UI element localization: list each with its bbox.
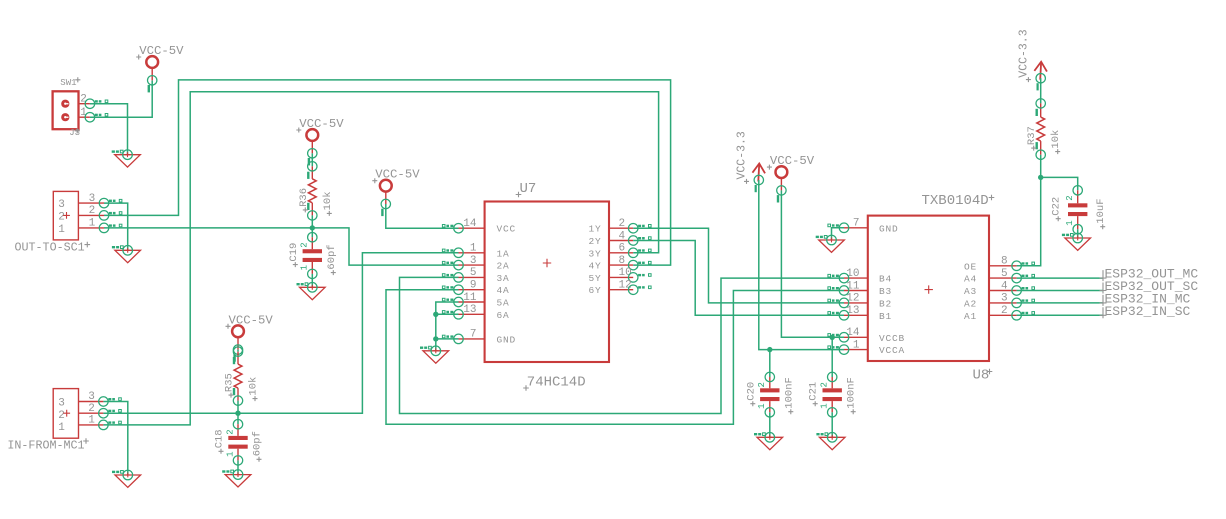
svg-text:7: 7	[470, 329, 477, 341]
svg-text:3: 3	[1001, 293, 1008, 305]
svg-text:B3: B3	[879, 286, 892, 297]
ground GND3 (IN-FROM-MC1)	[112, 470, 141, 487]
pad IN-FROM-MC1.1	[99, 420, 122, 430]
pad U7.13	[442, 310, 463, 320]
U8 pin 14 VCCB	[844, 327, 905, 344]
wire junction down to U8 OE	[1017, 177, 1041, 265]
svg-text:OUT-TO-SC1: OUT-TO-SC1	[15, 241, 85, 255]
ground GND1 (SW1)	[112, 150, 141, 167]
wire VCC-3.3 to R37	[1040, 78, 1042, 103]
U7 pin 4 2Y	[588, 230, 633, 247]
svg-text:3: 3	[470, 255, 477, 267]
pad IN-FROM-MC1.2	[99, 408, 122, 418]
pad OUT-TO-SC1.3	[99, 198, 122, 208]
wire OUT-TO-SC1.1 to U7 2A via R36 tap	[104, 228, 459, 265]
U8 pin 7 GND	[844, 218, 899, 235]
svg-text:4: 4	[619, 230, 626, 242]
svg-text:2Y: 2Y	[588, 236, 601, 247]
ground GND10 (C19)	[297, 283, 326, 300]
pad U7.7	[442, 334, 463, 344]
capacitor C21 100nF	[808, 372, 858, 417]
wire VCC-5V to U7 pin 14	[386, 204, 459, 228]
U7 pin 8 4Y	[588, 255, 633, 272]
svg-text:5Y: 5Y	[588, 273, 601, 284]
svg-text:100nF: 100nF	[783, 377, 795, 409]
svg-text:VCCB: VCCB	[879, 333, 905, 344]
ground GND8 (C21)	[816, 433, 845, 450]
U8 pin 8 OE	[964, 256, 1017, 273]
svg-text:ESP32_IN_SC: ESP32_IN_SC	[1105, 304, 1191, 319]
svg-text:4Y: 4Y	[588, 261, 601, 272]
connector OUT-TO-SC1 body	[53, 191, 78, 240]
U8 pin 2 A1	[964, 305, 1017, 322]
wire junction to C22	[1041, 177, 1078, 190]
svg-text:1A: 1A	[497, 248, 510, 259]
U7 pin 14 VCC	[459, 218, 517, 235]
svg-text:1: 1	[853, 339, 860, 351]
U7 pin 13 6A	[459, 304, 510, 321]
node ESP32_OUT_MC	[1100, 267, 1199, 282]
node ESP32_IN_SC	[1100, 304, 1191, 319]
U8 pin 5 A4	[964, 268, 1017, 285]
U8 pin 12 B2	[844, 293, 892, 310]
ground GND7 (C20)	[754, 433, 783, 450]
svg-text:9: 9	[470, 280, 477, 292]
svg-text:1: 1	[300, 265, 310, 270]
wire SW1.2 to ground	[90, 104, 128, 155]
wire R35 to net IN2	[237, 401, 239, 414]
wire tap to C18	[237, 413, 239, 424]
svg-text:2: 2	[80, 94, 87, 106]
ground GND5 (U7)	[420, 346, 449, 363]
label J3	[69, 128, 80, 138]
svg-text:7: 7	[853, 218, 860, 230]
wire C20 to ground	[769, 412, 771, 437]
capacitor C22 10uF	[1051, 186, 1108, 234]
svg-text:VCC-5V: VCC-5V	[139, 44, 184, 58]
svg-text:1: 1	[88, 415, 95, 427]
wire C20 tap down	[769, 350, 771, 377]
U7 pin 1 1A	[459, 243, 510, 260]
ground GND2 (OUT-TO-SC1)	[112, 246, 141, 263]
U8 pin 13 B1	[844, 305, 892, 322]
svg-text:VCC-3.3: VCC-3.3	[1017, 29, 1030, 77]
svg-text:4A: 4A	[497, 285, 510, 296]
wire U7 5A to ground rail	[436, 302, 459, 351]
svg-text:60pf: 60pf	[252, 431, 264, 456]
pad U8.14	[828, 333, 849, 343]
svg-text:R36: R36	[298, 188, 310, 207]
label OUT-TO-SC1	[15, 241, 85, 255]
pad U7.5	[442, 273, 463, 283]
svg-text:2: 2	[58, 410, 65, 422]
supply VCC-3.3 P+2 (R37)	[1017, 29, 1047, 90]
U8 pin 1 VCCA	[844, 339, 905, 356]
svg-text:2: 2	[1001, 305, 1008, 317]
svg-text:C22: C22	[1051, 197, 1063, 216]
svg-text:U8: U8	[973, 368, 990, 384]
ground GND9 (C22)	[1062, 233, 1091, 250]
IN-FROM-MC1 pin 1	[79, 415, 104, 427]
svg-text:C21: C21	[808, 382, 820, 401]
svg-text:14: 14	[463, 218, 477, 230]
supply VCC-5V P+5 (VCCB)	[767, 154, 815, 202]
pad U7.14	[442, 223, 463, 233]
resistor R36 10k	[298, 162, 334, 220]
svg-text:3A: 3A	[497, 273, 510, 284]
pad SW1.1	[85, 112, 108, 122]
pad U7.11	[442, 297, 463, 307]
svg-text:B2: B2	[879, 298, 892, 309]
wire C19 to ground	[311, 274, 313, 287]
svg-text:2: 2	[88, 403, 95, 415]
svg-text:3: 3	[88, 391, 95, 403]
svg-text:1Y: 1Y	[588, 224, 601, 235]
connector IN-FROM-MC1 body	[53, 389, 78, 439]
wire OUT-TO-SC1.2 to U7 4Y (top bus A)	[104, 80, 671, 265]
svg-text:1: 1	[470, 243, 477, 255]
pad OUT-TO-SC1.1	[99, 223, 122, 233]
svg-text:10k: 10k	[248, 377, 260, 396]
wire VCC-3.3 to U8 VCCA	[759, 180, 844, 350]
svg-text:3Y: 3Y	[588, 248, 601, 259]
wire IN-FROM-MC1.1 to U7 3Y (top bus B)	[103, 92, 658, 425]
svg-text:2: 2	[820, 382, 830, 387]
svg-text:6: 6	[619, 243, 626, 255]
pad U8.8	[1012, 261, 1035, 271]
label 74HC14D	[527, 375, 586, 391]
pad OUT-TO-SC1.2	[99, 211, 122, 221]
svg-text:1: 1	[58, 422, 65, 434]
wire VCC-5V to U8 VCCB	[781, 190, 844, 337]
svg-text:10uF: 10uF	[1095, 198, 1107, 223]
U7 pin 11 5A	[459, 292, 510, 309]
supply VCC-3.3 P+1 (VCCA)	[736, 131, 766, 192]
pad U7.9	[442, 285, 463, 295]
svg-text:C18: C18	[214, 429, 226, 448]
capacitor C18 60pf	[214, 420, 264, 466]
svg-text:2: 2	[757, 382, 767, 387]
svg-text:R37: R37	[1026, 126, 1038, 145]
label TXB0104D	[922, 193, 989, 209]
capacitor C19 60pf	[288, 233, 338, 279]
svg-text:1: 1	[89, 218, 96, 230]
wire U7 4A to U8 B3 (bottom bus)	[386, 290, 844, 425]
pad U8.1	[828, 345, 849, 355]
pad U7.6	[628, 248, 651, 257]
wire VCC-5V to R35	[237, 350, 239, 352]
svg-text:VCC-5V: VCC-5V	[770, 154, 815, 168]
U8 pin 4 A3	[964, 280, 1017, 297]
svg-text:3: 3	[89, 193, 96, 205]
pad U8.5	[1012, 273, 1035, 283]
U7 pin 3 2A	[459, 255, 510, 272]
svg-text:B4: B4	[879, 274, 892, 285]
svg-text:1: 1	[820, 403, 830, 408]
svg-text:1: 1	[58, 224, 65, 236]
pad U8.4	[1012, 286, 1035, 296]
wire U8 to net ESP32_OUT_MC	[1017, 277, 1103, 279]
pad U7.1	[442, 248, 463, 257]
svg-text:A4: A4	[964, 274, 977, 285]
wire U7 2Y to U8 B1	[633, 241, 844, 316]
U8 origin cross	[925, 285, 933, 293]
connector SW1/J3 body	[53, 91, 79, 129]
svg-text:VCC: VCC	[497, 224, 517, 235]
svg-text:1: 1	[225, 451, 235, 456]
IN-FROM-MC1 pin 2	[79, 403, 104, 415]
wire U7 3A to U8 B4 (bottom bus)	[400, 277, 845, 413]
svg-text:6Y: 6Y	[588, 285, 601, 296]
resistor R35 10k	[224, 347, 260, 405]
svg-text:1: 1	[80, 107, 87, 119]
pad U8.10	[828, 273, 849, 283]
label U8	[973, 368, 990, 384]
pad U8.13	[828, 311, 849, 321]
svg-text:B1: B1	[879, 311, 892, 322]
pad U7.2	[628, 223, 651, 233]
svg-text:GND: GND	[497, 334, 517, 345]
wire C21 to ground	[831, 412, 833, 437]
junction R37/C22/OE	[1038, 175, 1043, 180]
svg-text:1: 1	[757, 403, 767, 408]
junction U7 GND	[433, 336, 438, 341]
svg-text:2: 2	[58, 211, 65, 223]
U7 pin 6 3Y	[588, 243, 633, 260]
svg-text:VCC-5V: VCC-5V	[299, 117, 344, 131]
svg-text:3: 3	[58, 397, 65, 409]
svg-text:OE: OE	[964, 261, 977, 272]
svg-text:5: 5	[1001, 268, 1008, 280]
svg-text:C20: C20	[745, 382, 757, 401]
wire OUT-TO-SC1.3 to ground	[104, 203, 128, 250]
OUT-TO-SC1 pin 1	[78, 218, 104, 230]
svg-text:SW1: SW1	[60, 78, 76, 88]
op-amp U8 body (TXB0104D level shifter)	[868, 216, 989, 361]
wire C22 to ground	[1077, 229, 1079, 238]
svg-text:2A: 2A	[497, 261, 510, 272]
svg-text:VCC-5V: VCC-5V	[375, 168, 420, 182]
svg-text:C19: C19	[288, 243, 300, 262]
wire IN-FROM-MC1.3 to ground	[103, 402, 127, 476]
U7 pin 9 4A	[459, 280, 510, 297]
svg-text:TXB0104D: TXB0104D	[922, 193, 989, 209]
wire U8 to net ESP32_IN_SC	[1017, 314, 1103, 316]
label IN-FROM-MC1	[7, 438, 84, 452]
junction U7 6A	[433, 312, 438, 317]
wire IN-FROM-MC1.2 to U7 1A via R35 tap	[103, 253, 458, 413]
capacitor C20 100nF	[745, 372, 795, 417]
wire U7 6A stub	[436, 313, 459, 315]
svg-text:VCCA: VCCA	[879, 345, 905, 356]
svg-text:A1: A1	[964, 311, 977, 322]
U7 origin cross	[543, 259, 551, 267]
ground GND6 (U8)	[816, 235, 845, 252]
wire R37 to OE net	[1040, 155, 1042, 178]
node ESP32_IN_MC	[1100, 291, 1191, 306]
U7 pin 5 3A	[459, 267, 510, 284]
svg-text:5A: 5A	[497, 298, 510, 309]
pad IN-FROM-MC1.3	[99, 397, 122, 407]
pad U8.7	[828, 223, 849, 233]
wire U8 GND to ground	[832, 228, 845, 240]
pad U7.4	[628, 236, 651, 246]
wire U7 GND stub	[436, 338, 459, 340]
svg-text:100nF: 100nF	[846, 377, 858, 409]
pad U8.3	[1012, 298, 1035, 308]
supply VCC-5V P+3 (R36)	[296, 117, 344, 165]
label U7	[520, 181, 537, 197]
U8 pin 11 B3	[844, 280, 892, 297]
wire U7 1Y to U8 B2	[633, 228, 844, 303]
svg-text:2: 2	[1065, 195, 1075, 200]
label SW1	[60, 78, 76, 88]
junction R35/C18 tap	[235, 411, 240, 416]
op-amp U7 body (74HC14D hex inverter)	[485, 202, 609, 363]
wire C18 to ground	[237, 460, 239, 474]
svg-text:2: 2	[225, 429, 235, 434]
svg-text:3: 3	[58, 199, 65, 211]
junction C20 tap	[767, 347, 772, 352]
svg-text:8: 8	[619, 255, 626, 267]
svg-text:A3: A3	[964, 286, 977, 297]
svg-text:2: 2	[300, 242, 310, 247]
supply VCC-5V P+1 (SW1)	[136, 44, 184, 92]
U8 pin 10 B4	[844, 268, 892, 285]
svg-text:60pf: 60pf	[326, 244, 338, 269]
pad U8.2	[1012, 311, 1035, 321]
pad U7.3	[442, 260, 463, 270]
SW1 pin 1	[79, 107, 90, 119]
svg-text:2: 2	[89, 205, 96, 217]
svg-text:IN-FROM-MC1: IN-FROM-MC1	[7, 438, 84, 452]
U7 pin 7 GND	[459, 329, 517, 346]
SW1 pin 2	[79, 94, 90, 106]
svg-text:6A: 6A	[497, 310, 510, 321]
pad U7.8	[628, 260, 651, 270]
node ESP32_OUT_SC	[1100, 279, 1199, 294]
svg-text:8: 8	[1001, 256, 1008, 268]
junction R36/C19 tap	[310, 225, 315, 230]
svg-text:5: 5	[470, 267, 477, 279]
pad U7.10	[628, 273, 651, 283]
U7 pin 2 1Y	[588, 218, 633, 235]
svg-text:11: 11	[463, 292, 477, 304]
pad U8.11	[828, 286, 849, 296]
svg-text:2: 2	[619, 218, 626, 230]
svg-text:10k: 10k	[1050, 130, 1062, 149]
svg-text:U7: U7	[520, 181, 537, 197]
wire VCC-5V to R36	[311, 153, 313, 166]
svg-text:A2: A2	[964, 298, 977, 309]
wire SW1.1 to VCC-5V	[90, 80, 152, 117]
OUT-TO-SC1 pin 2	[78, 205, 104, 217]
OUT-TO-SC1 pin 3	[78, 193, 104, 205]
wire U8 to net ESP32_IN_MC	[1017, 302, 1103, 304]
U7 pin 12 6Y	[588, 280, 633, 297]
resistor R37 10k	[1026, 99, 1062, 160]
supply VCC-5V P+2 (U7 pin14)	[372, 168, 420, 216]
pad U7.12	[628, 285, 651, 295]
svg-text:13: 13	[463, 304, 476, 316]
U8 pin 3 A2	[964, 293, 1017, 310]
svg-text:4: 4	[1001, 280, 1008, 292]
svg-text:R35: R35	[224, 373, 236, 392]
IN-FROM-MC1 pin 3	[79, 391, 104, 403]
wire R36 to net OUT1	[311, 215, 313, 228]
svg-text:VCC-3.3: VCC-3.3	[736, 131, 749, 179]
wire tap to C19	[311, 228, 313, 237]
svg-text:1: 1	[1065, 220, 1075, 225]
svg-text:74HC14D: 74HC14D	[527, 375, 586, 391]
pad SW1.2	[85, 99, 108, 109]
pad U8.12	[828, 298, 849, 308]
wire U8 to net ESP32_OUT_SC	[1017, 290, 1103, 292]
svg-text:12: 12	[619, 280, 632, 292]
svg-text:GND: GND	[879, 223, 899, 234]
wire C21 tap down	[831, 337, 833, 377]
svg-text:VCC-5V: VCC-5V	[229, 313, 274, 327]
junction C21 tap	[830, 335, 835, 340]
supply VCC-5V P+4 (R35)	[226, 313, 274, 361]
svg-text:J3: J3	[69, 128, 80, 138]
svg-text:10k: 10k	[322, 191, 334, 210]
svg-text:10: 10	[619, 267, 632, 279]
ground GND4 (C18)	[222, 470, 251, 487]
U7 pin 10 5Y	[588, 267, 633, 284]
